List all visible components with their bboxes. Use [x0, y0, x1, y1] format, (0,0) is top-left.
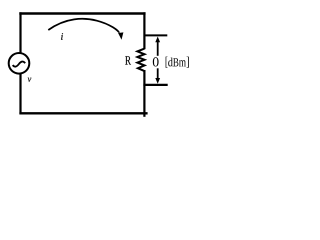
label R: [125, 56, 131, 64]
dim arrow down: [157, 68, 159, 78]
dim bar bottom: [143, 84, 167, 86]
resistor R: [137, 49, 144, 71]
wire top: [19, 12, 145, 14]
dim bar top: [144, 34, 167, 36]
wire bottom: [19, 112, 147, 114]
label 0: [153, 57, 159, 66]
label dBm letters: [168, 58, 173, 67]
current arrowhead: [118, 32, 123, 39]
label [dBm]: [166, 57, 168, 68]
label v: [28, 78, 32, 82]
wire right lower: [143, 70, 145, 117]
wire right upper: [143, 12, 145, 49]
source sine: [13, 62, 26, 67]
dim arrow up: [157, 42, 159, 56]
wire left lower: [19, 73, 21, 114]
current arc: [48, 19, 119, 33]
label bracket right: [187, 57, 189, 68]
label i: [61, 33, 63, 40]
wire left upper: [19, 12, 21, 53]
source V circle: [9, 53, 30, 74]
